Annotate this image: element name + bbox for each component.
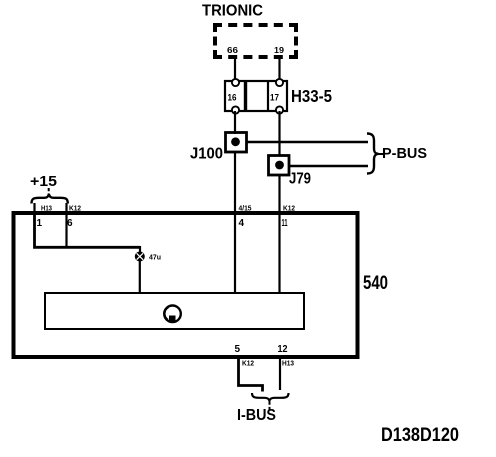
wire: J100 to P-BUS brace — [247, 141, 369, 144]
unit 540 box — [14, 213, 358, 357]
svg-text:D138D120: D138D120 — [381, 425, 459, 446]
wire: pin 12 down to I-BUS — [279, 359, 281, 390]
wire: pin 4 down to instrument block — [234, 215, 236, 294]
wire: pin 11 down to instrument block — [278, 215, 280, 294]
svg-text:66: 66 — [227, 45, 238, 55]
connector H33-5 pin circle top-right — [276, 79, 283, 86]
instrument block inside unit 540 — [45, 293, 304, 329]
svg-text:TRIONIC: TRIONIC — [202, 3, 263, 20]
wire: pin 5 down and right to I-BUS — [239, 359, 263, 392]
svg-text:16: 16 — [228, 93, 237, 103]
wire: J79 down to unit 540 pin 11 — [278, 175, 280, 213]
svg-text:4: 4 — [239, 218, 245, 229]
ECU TRIONIC dashed box — [213, 23, 298, 59]
wire: +15 brace to pin 6 — [65, 203, 67, 214]
svg-text:J100: J100 — [190, 146, 223, 163]
splice J100 — [226, 133, 247, 153]
svg-text:11: 11 — [282, 218, 288, 229]
+15 dashed tick — [48, 188, 50, 197]
connector H33-5 body — [225, 81, 287, 111]
wire: J79 to P-BUS brace — [289, 165, 368, 168]
svg-text:P-BUS: P-BUS — [382, 145, 427, 162]
svg-text:+15: +15 — [30, 173, 57, 190]
P-BUS brace — [367, 134, 379, 174]
wire: pin 6 down to junction — [65, 215, 67, 248]
wire: TRIONIC pin 66 to connector H33-5 — [234, 57, 236, 82]
wire: pin 1 down and right to splice 47u — [35, 215, 141, 247]
svg-text:1: 1 — [37, 218, 43, 229]
svg-text:5: 5 — [235, 344, 241, 355]
connector H33-5 divider right — [267, 81, 269, 111]
I-BUS brace — [252, 393, 289, 401]
+15 brace — [32, 194, 68, 203]
splice J79 — [269, 156, 290, 176]
svg-text:H13: H13 — [282, 361, 294, 368]
wire: junction down to splice 47u — [139, 246, 141, 253]
svg-text:H33-5: H33-5 — [291, 86, 332, 106]
connector H33-5 divider left — [244, 81, 247, 111]
wire: J100 down to unit 540 pin 4 — [234, 152, 236, 213]
wire: splice 47u down to instrument block — [139, 261, 141, 294]
wire: H33-5 pin 17 down to splice J79 — [278, 111, 280, 156]
svg-text:I-BUS: I-BUS — [237, 407, 276, 424]
svg-text:K12: K12 — [242, 361, 254, 368]
connector H33-5 pin circle top-left — [232, 79, 239, 86]
svg-text:J79: J79 — [289, 171, 311, 188]
svg-text:12: 12 — [278, 344, 288, 355]
connector H33-5 pin circle bottom-left — [232, 106, 239, 113]
instrument symbol (circle with sector) — [164, 306, 181, 323]
svg-text:17: 17 — [270, 93, 279, 103]
splice 47u (circle with cross) — [135, 252, 145, 262]
svg-text:47u: 47u — [149, 253, 161, 262]
wire: H33-5 pin 16 down to splice J100 — [234, 111, 236, 134]
P-BUS tie dash — [378, 153, 383, 155]
wire: +15 brace to pin 1 — [33, 203, 35, 214]
svg-text:19: 19 — [274, 45, 284, 55]
svg-text:540: 540 — [363, 273, 388, 294]
I-BUS dashed tick — [269, 402, 271, 410]
connector H33-5 pin circle bottom-right — [276, 106, 283, 113]
svg-text:6: 6 — [67, 218, 73, 229]
wire: TRIONIC pin 19 to connector H33-5 — [278, 57, 280, 82]
